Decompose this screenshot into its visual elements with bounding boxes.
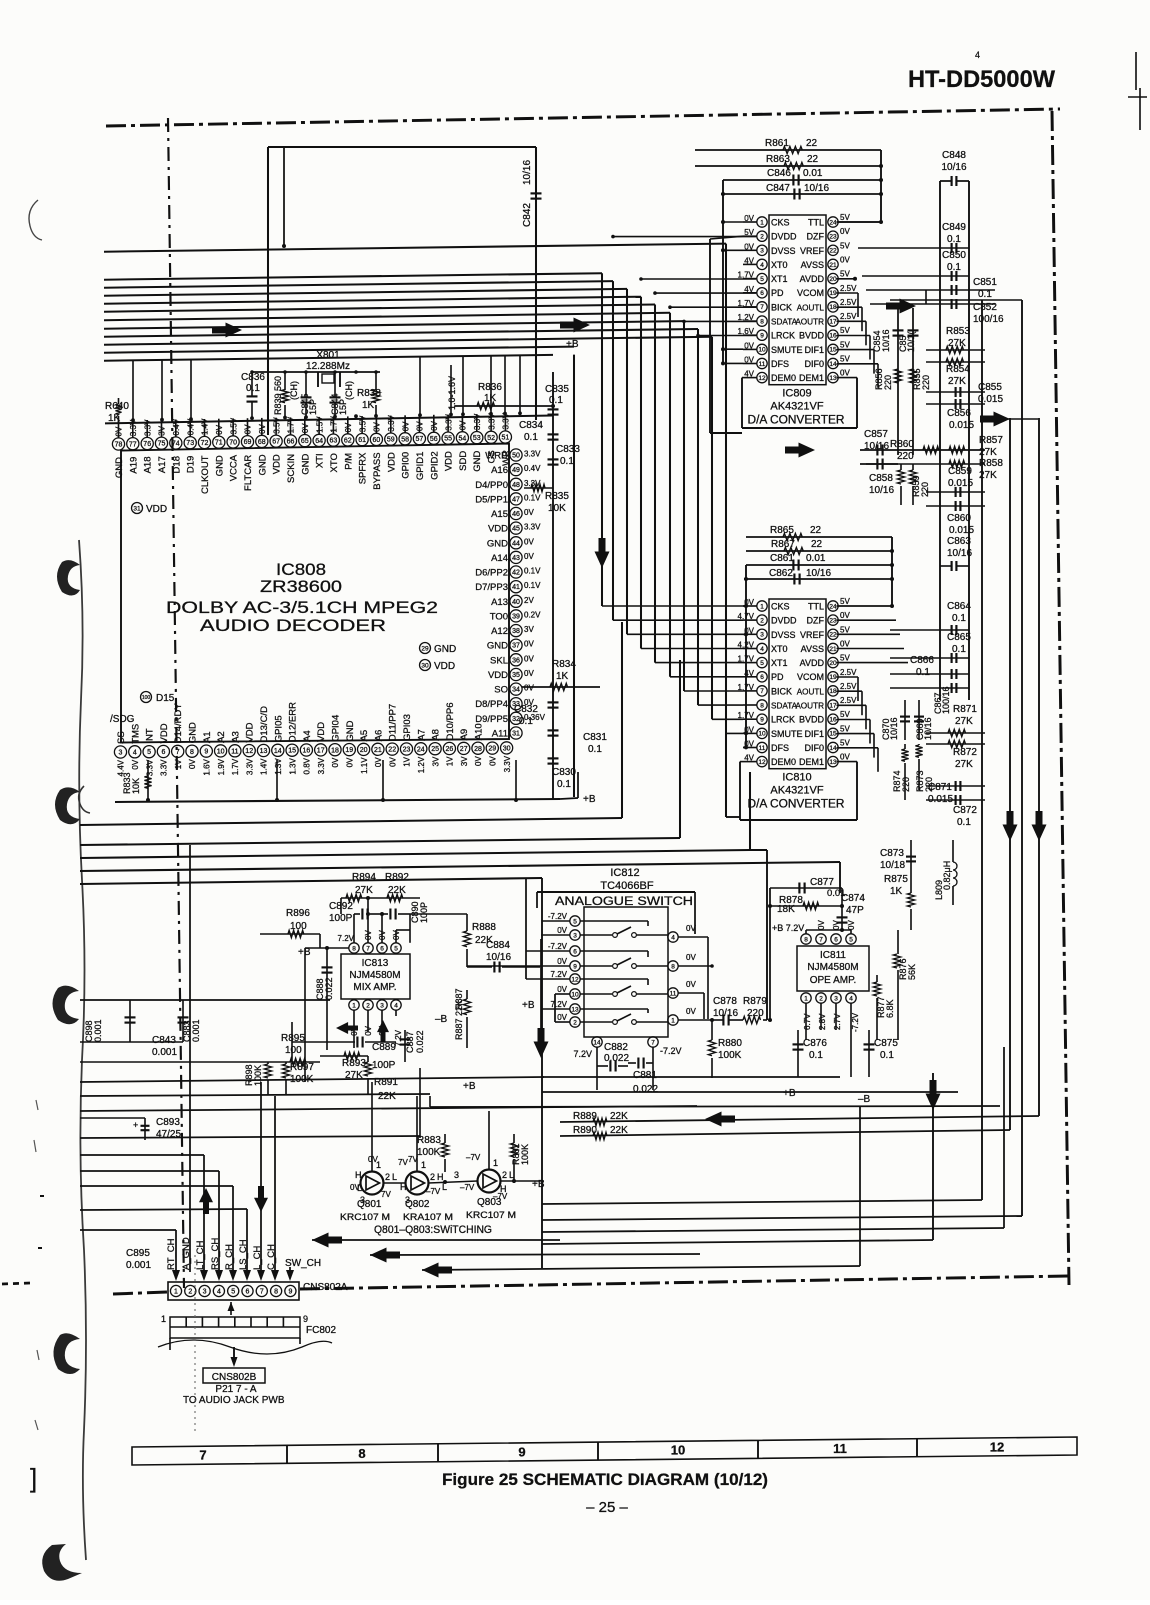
svg-text:0V: 0V	[557, 957, 567, 966]
svg-text:CKS: CKS	[771, 218, 790, 228]
IC810 pin 23 DZF	[828, 615, 838, 625]
IC812 left pin 13	[570, 1004, 580, 1014]
svg-text:A15: A15	[491, 509, 508, 520]
wire long left vertical IC812 outer	[541, 878, 543, 1268]
svg-text:0.1: 0.1	[557, 779, 571, 790]
CNS802A pin 7	[256, 1285, 267, 1296]
wire IC813 top pins	[340, 898, 342, 914]
svg-text:15: 15	[829, 347, 837, 354]
svg-text:70: 70	[229, 440, 237, 447]
wire bottom bundle	[542, 1200, 982, 1204]
svg-text:0V: 0V	[524, 654, 534, 663]
svg-text:6: 6	[246, 1289, 250, 1296]
svg-text:BVDD: BVDD	[799, 331, 825, 341]
svg-text:R895: R895	[281, 1033, 305, 1044]
IC809 pin 10 SMUTE	[757, 344, 767, 354]
svg-text:VDD: VDD	[434, 661, 455, 672]
svg-text:17: 17	[829, 702, 837, 709]
svg-text:14: 14	[593, 1039, 601, 1046]
svg-text:72: 72	[201, 440, 209, 447]
svg-text:5V: 5V	[840, 739, 850, 748]
IC812 right pin 1	[668, 1015, 678, 1025]
wire stub to IC810 pin	[602, 605, 743, 607]
svg-text:12: 12	[758, 759, 766, 766]
svg-text:0V: 0V	[840, 611, 850, 620]
svg-text:C847: C847	[766, 183, 790, 194]
svg-text:C895: C895	[126, 1248, 150, 1259]
svg-text:A9: A9	[459, 729, 470, 741]
wire vertical bundle 3	[626, 289, 628, 634]
capacitor C847 10/16	[721, 193, 881, 195]
svg-text:27K: 27K	[355, 885, 373, 896]
junction dot on rail	[418, 413, 422, 417]
svg-text:40: 40	[512, 599, 520, 606]
wire stub to IC810 pin	[684, 690, 743, 692]
IC810 pin 21 AVSS	[828, 643, 838, 653]
IC810 pin 20 AVDD	[828, 657, 838, 667]
svg-text:0.022: 0.022	[604, 1053, 629, 1064]
svg-text:74: 74	[172, 441, 180, 448]
svg-text:2V: 2V	[524, 596, 534, 605]
svg-text:VDD: VDD	[245, 722, 256, 742]
svg-text:24: 24	[829, 603, 837, 610]
transistor Q803 KRC107 M	[478, 1170, 501, 1193]
svg-text:10/16: 10/16	[889, 717, 899, 740]
IC809 pin 6 PD	[757, 288, 767, 298]
svg-text:2: 2	[819, 995, 823, 1002]
svg-text:0V: 0V	[557, 985, 567, 994]
CNS802A pin 4	[213, 1285, 224, 1296]
svg-text:0.1: 0.1	[947, 234, 961, 245]
svg-text:69: 69	[244, 439, 252, 446]
svg-text:6.8K: 6.8K	[885, 999, 895, 1018]
svg-text:DOLBY AC-3/5.1CH MPEG2: DOLBY AC-3/5.1CH MPEG2	[166, 598, 438, 617]
wire drop to IC808 rail	[419, 357, 421, 416]
arrow below IC809	[785, 443, 815, 458]
svg-text:76: 76	[143, 441, 151, 448]
svg-text:5V: 5V	[840, 597, 850, 606]
IC812 right pin 11	[668, 988, 678, 998]
svg-text:10/16: 10/16	[941, 162, 966, 173]
scan artifact curve top left	[29, 200, 42, 240]
svg-text:–B: –B	[858, 1094, 871, 1105]
IC810 pin 18 AOUTL	[828, 686, 838, 696]
svg-text:10/16: 10/16	[923, 717, 933, 740]
svg-text:10/16: 10/16	[947, 548, 972, 559]
svg-text:2: 2	[760, 234, 764, 241]
IC808 top pin 51 WR	[499, 431, 511, 443]
svg-text:4: 4	[133, 749, 137, 756]
svg-text:18: 18	[829, 688, 837, 695]
svg-text:XT0: XT0	[771, 644, 788, 654]
svg-text:5V: 5V	[840, 270, 850, 279]
IC808 top pin 67 VDD	[270, 435, 282, 447]
svg-text:D9/PP5: D9/PP5	[475, 714, 508, 725]
svg-text:AVSS: AVSS	[801, 644, 824, 654]
junction dot on rail	[304, 415, 308, 419]
IC810 pin 13 DEM1	[828, 756, 838, 766]
IC808 top pin 52 CS	[485, 431, 497, 443]
svg-text:C860: C860	[947, 513, 971, 524]
svg-text:1.7V: 1.7V	[231, 758, 240, 775]
svg-text:26: 26	[446, 746, 454, 753]
svg-text:D6/PP2: D6/PP2	[475, 568, 508, 579]
svg-text:R887 22K: R887 22K	[454, 1000, 464, 1040]
wire rail above IC808 top pins	[105, 416, 553, 424]
wire drop to +B rail	[382, 760, 384, 801]
svg-text:+B: +B	[583, 794, 596, 805]
IC811 top pin 6	[831, 934, 841, 944]
svg-text:35: 35	[512, 672, 520, 679]
IC808 right pin 36 SKL	[510, 654, 522, 666]
capacitor C889 100P	[292, 1041, 355, 1043]
svg-text:+B: +B	[566, 339, 579, 350]
IC808 right pin 47 D5/PP1	[510, 493, 522, 505]
svg-text:A17: A17	[157, 456, 168, 473]
svg-text:KRC107 M: KRC107 M	[340, 1212, 390, 1223]
svg-text:0V: 0V	[686, 953, 696, 962]
IC810 pin 15 DIF1	[828, 728, 838, 738]
svg-text:R896: R896	[286, 908, 310, 919]
svg-text:D/A CONVERTER: D/A CONVERTER	[748, 415, 845, 427]
wire C_CH vertical	[274, 1096, 276, 1272]
wire long horizontal	[80, 1106, 697, 1111]
wire stub to IC810 pin	[627, 633, 743, 635]
IC810 pin 3 DVSS	[757, 629, 767, 639]
svg-text:D8/PP4: D8/PP4	[475, 699, 508, 710]
resistor R863 22	[695, 165, 881, 167]
svg-text:0V: 0V	[557, 926, 567, 935]
IC808 right pin 40 A13	[510, 595, 522, 607]
wire IC809 right pin out	[837, 335, 871, 337]
arrow down channel	[254, 1186, 268, 1212]
fold dotted line	[194, 1255, 196, 1435]
wire misc verticals bottom	[429, 1096, 431, 1107]
svg-text:AVDD: AVDD	[800, 274, 825, 284]
wire vertical bundle 5	[654, 305, 656, 663]
svg-text:220: 220	[901, 777, 911, 792]
IC808 bottom pin 23 GPI03	[400, 743, 412, 755]
svg-text:C857: C857	[864, 429, 888, 440]
svg-text:1: 1	[352, 1002, 356, 1009]
IC808 top pin 53 GND	[471, 432, 483, 444]
svg-text:5V: 5V	[840, 724, 850, 733]
junction dot on rail	[461, 412, 465, 416]
IC810 pin 5 XT1	[757, 657, 767, 667]
IC808 top pin 57 GPID1	[413, 433, 425, 445]
svg-text:22: 22	[811, 539, 823, 550]
svg-text:IC813: IC813	[362, 958, 389, 969]
svg-text:0V: 0V	[840, 640, 850, 649]
connector CNS802A	[168, 1282, 299, 1300]
svg-text:R893: R893	[342, 1058, 366, 1069]
svg-text:XT1: XT1	[771, 658, 788, 668]
arrows left bottom	[312, 1233, 342, 1248]
wire junction top	[282, 244, 286, 248]
svg-text:A19: A19	[128, 457, 139, 474]
svg-text:CNS802B: CNS802B	[212, 1372, 257, 1383]
svg-text:SDATA: SDATA	[771, 702, 798, 711]
arrow right of IC809	[886, 299, 916, 314]
svg-text:0.001: 0.001	[126, 1260, 151, 1271]
svg-text:54: 54	[459, 435, 467, 442]
wire crystal rail	[252, 371, 380, 373]
svg-text:RS_CH: RS_CH	[210, 1238, 221, 1270]
svg-text:A13: A13	[491, 597, 508, 608]
IC811 bottom pin 1	[801, 993, 811, 1003]
svg-text:FLTCAR: FLTCAR	[243, 455, 254, 491]
svg-text:GPI00: GPI00	[401, 452, 412, 479]
svg-text:AOUTL: AOUTL	[797, 303, 825, 312]
IC812 switch 1	[581, 934, 613, 936]
svg-text:NJM4580M: NJM4580M	[349, 970, 400, 981]
svg-text:1: 1	[760, 603, 764, 610]
IC809 pin 13 DEM1	[828, 372, 838, 382]
svg-text:C830: C830	[552, 767, 576, 778]
svg-text:0.1: 0.1	[549, 395, 563, 406]
svg-text:C878: C878	[713, 996, 737, 1007]
svg-text:10: 10	[758, 347, 766, 354]
border bottom	[300, 1276, 1068, 1289]
wire stub to IC810 pin	[655, 662, 743, 664]
svg-text:GPID1: GPID1	[415, 452, 426, 481]
svg-text:10/16: 10/16	[713, 1008, 738, 1019]
svg-text:DEM0: DEM0	[771, 373, 796, 383]
svg-text:56K: 56K	[907, 964, 917, 980]
IC812 bottom pin 7	[648, 1037, 658, 1047]
svg-text:TTL: TTL	[808, 602, 824, 612]
IC809 pin 8 SDATA	[757, 316, 767, 326]
svg-text:SKL: SKL	[490, 655, 508, 666]
svg-text:10: 10	[671, 1443, 685, 1458]
IC809 pin 2 DVDD	[757, 231, 767, 241]
svg-text:GND: GND	[487, 641, 508, 652]
svg-text:D13/C/D: D13/C/D	[259, 706, 270, 743]
svg-text:TO0: TO0	[490, 611, 508, 622]
svg-text:D15: D15	[156, 693, 175, 704]
svg-text:22: 22	[829, 632, 837, 639]
svg-text:11: 11	[833, 1441, 847, 1456]
svg-text:0.01: 0.01	[806, 553, 826, 564]
svg-text:A10: A10	[474, 723, 485, 740]
wire right tall verticals	[981, 300, 983, 1200]
svg-text:9: 9	[573, 963, 577, 970]
IC813 bottom pin 2	[363, 1000, 373, 1010]
svg-text:12: 12	[758, 375, 766, 382]
svg-text:61: 61	[358, 437, 366, 444]
IC808 right pin 42 D6/PP2	[510, 566, 522, 578]
svg-text:NJM4580M: NJM4580M	[807, 962, 858, 973]
svg-text:2: 2	[573, 1019, 577, 1026]
svg-text:5V: 5V	[840, 241, 850, 250]
svg-text:59: 59	[387, 437, 395, 444]
svg-text:220: 220	[920, 482, 930, 497]
svg-text:0V: 0V	[215, 424, 224, 434]
svg-text:16: 16	[829, 717, 837, 724]
IC808 pin 30 VDD marker	[420, 660, 431, 671]
wire vertical bundle 6	[669, 313, 671, 677]
svg-text:10/16: 10/16	[869, 485, 894, 496]
svg-text:7.2V: 7.2V	[573, 1049, 592, 1059]
svg-text:A18: A18	[143, 457, 154, 474]
svg-text:22: 22	[806, 138, 818, 149]
svg-text:C833: C833	[556, 444, 580, 455]
svg-text:VREF: VREF	[800, 630, 825, 640]
IC808 top pin 75 A17	[155, 437, 167, 449]
svg-text:28: 28	[474, 746, 482, 753]
svg-text:+B: +B	[522, 1000, 535, 1011]
svg-text:C887: C887	[405, 1031, 415, 1053]
svg-text:1.6V: 1.6V	[203, 758, 212, 775]
op-amp IC810 D/A converter	[769, 599, 826, 769]
svg-text:IC810: IC810	[782, 772, 811, 784]
svg-text:0.1: 0.1	[246, 383, 260, 394]
IC block IC808 outline	[121, 444, 509, 743]
svg-text:C831: C831	[583, 732, 607, 743]
bus wire top	[104, 244, 726, 252]
IC808 right pin 32 D9/PP5	[510, 712, 522, 724]
svg-text:AUDIO DECODER: AUDIO DECODER	[200, 616, 386, 635]
wire IC809 right pin out	[837, 320, 867, 322]
svg-text:7: 7	[651, 1039, 655, 1046]
IC809 pin 24 TTL	[828, 217, 838, 227]
svg-text:37: 37	[512, 643, 520, 650]
svg-text:100: 100	[142, 695, 151, 701]
arrow down to CNS802B	[233, 1347, 235, 1362]
svg-text:1: 1	[174, 1289, 178, 1296]
svg-text:/SDG: /SDG	[110, 714, 135, 725]
svg-text:DIF0: DIF0	[804, 359, 824, 369]
svg-text:100: 100	[285, 1045, 302, 1056]
IC809 pin 20 AVDD	[828, 273, 838, 283]
svg-text:0V: 0V	[115, 426, 124, 436]
svg-text:C893: C893	[156, 1117, 180, 1128]
wire drop to +B rail	[276, 760, 278, 801]
svg-text:6.7V: 6.7V	[803, 1013, 812, 1030]
svg-text:58: 58	[401, 436, 409, 443]
IC808 right pin 49 A16	[510, 464, 522, 476]
svg-text:17: 17	[317, 747, 325, 754]
svg-text:SMUTE: SMUTE	[771, 729, 803, 739]
wire long horizontal	[80, 1077, 544, 1082]
IC809 pin 4 XT0	[757, 259, 767, 269]
IC808 bottom pin 28 A10	[472, 742, 484, 754]
wire bottom bus group with corners to IC812	[80, 818, 622, 825]
svg-text:D7/PP3: D7/PP3	[475, 582, 508, 593]
arrow left mid	[705, 1112, 735, 1127]
svg-text:CNS802A: CNS802A	[303, 1282, 348, 1293]
svg-text:3V: 3V	[158, 425, 167, 435]
svg-text:220: 220	[883, 375, 893, 390]
svg-text:DFS: DFS	[771, 359, 789, 369]
IC811 top pin 7	[816, 934, 826, 944]
wire stub to IC809 pin	[684, 320, 756, 322]
svg-text:VDD: VDD	[159, 723, 170, 743]
IC811 bottom pin 4	[846, 993, 856, 1003]
svg-text:13: 13	[829, 375, 837, 382]
junction dot on rail	[250, 416, 254, 420]
svg-text:C835: C835	[545, 384, 569, 395]
svg-text:21: 21	[374, 747, 382, 754]
svg-text:C865: C865	[947, 632, 971, 643]
wire vertical with down arrow	[932, 1073, 934, 1240]
svg-text:0.1: 0.1	[880, 1050, 894, 1061]
IC808 top pin 71 GND	[213, 436, 225, 448]
svg-text:1V: 1V	[174, 759, 183, 769]
IC810 pin 1 CKS	[757, 601, 767, 611]
svg-text:0V: 0V	[459, 420, 468, 430]
IC812 left pin 2	[570, 1017, 580, 1027]
svg-text:27K: 27K	[948, 376, 966, 387]
svg-text:XTO: XTO	[329, 453, 340, 472]
svg-text:A11: A11	[492, 729, 508, 740]
svg-text:73: 73	[186, 440, 194, 447]
capacitor C862 10/16	[744, 578, 892, 580]
svg-text:14: 14	[274, 748, 282, 755]
svg-text:BYPASS: BYPASS	[372, 452, 383, 489]
IC808 top pin 59 VDD	[385, 433, 397, 445]
IC809 pin 23 DZF	[828, 231, 838, 241]
wire rail right of ladder	[880, 150, 882, 222]
wire vertical bundle 9	[711, 337, 713, 720]
IC812 left pin 6	[570, 946, 580, 956]
svg-text:5: 5	[760, 276, 764, 283]
svg-text:16: 16	[829, 333, 837, 340]
wire drop to IC808 rail	[462, 356, 464, 414]
svg-text:3.5V: 3.5V	[272, 417, 281, 434]
IC808 top pin 60 BYPASS	[370, 433, 382, 445]
svg-text:D12/ERR: D12/ERR	[288, 702, 299, 742]
IC809 pin 9 LRCK	[757, 330, 767, 340]
svg-text:AK4321VF: AK4321VF	[770, 785, 823, 797]
svg-text:8: 8	[804, 936, 808, 943]
svg-text:47P: 47P	[846, 905, 864, 916]
svg-text:8: 8	[352, 945, 356, 952]
svg-text:D11/PP7: D11/PP7	[388, 704, 399, 741]
bus wire 8	[104, 329, 698, 337]
svg-text:67: 67	[272, 439, 280, 446]
svg-text:X801: X801	[316, 350, 340, 361]
svg-text:0V: 0V	[524, 537, 534, 546]
svg-text:GND: GND	[114, 457, 125, 478]
svg-text:TC4066BF: TC4066BF	[600, 880, 653, 892]
arrow on bus left	[212, 323, 242, 338]
IC808 bottom pin 21 A6	[372, 743, 384, 755]
svg-text:R839 560: R839 560	[273, 376, 283, 415]
svg-text:11: 11	[231, 748, 238, 755]
svg-text:XT0: XT0	[771, 260, 788, 270]
svg-text:AOUTR: AOUTR	[795, 702, 824, 711]
IC812 right pin 8	[668, 961, 678, 971]
svg-text:RT_CH: RT_CH	[166, 1238, 177, 1270]
svg-text:GPI04: GPI04	[331, 715, 342, 742]
IC808 bottom pin 7 D14/RDY	[172, 745, 184, 757]
IC808 top pin 77 A19	[127, 438, 139, 450]
CNS802A pin 6	[242, 1285, 253, 1296]
svg-text:21: 21	[829, 262, 837, 269]
IC808 bottom pin 10 A2	[215, 745, 227, 757]
svg-text:TMS: TMS	[130, 724, 141, 744]
svg-text:24: 24	[829, 219, 837, 226]
svg-text:0V: 0V	[301, 423, 310, 433]
svg-text:(CH): (CH)	[289, 381, 299, 400]
svg-text:VREF: VREF	[800, 246, 825, 256]
IC808 right pin 39 TO0	[510, 610, 522, 622]
wire vertical bundle 8	[697, 329, 699, 705]
junction dot on rail	[518, 411, 522, 415]
svg-text:68: 68	[258, 439, 266, 446]
svg-text:50: 50	[512, 453, 520, 460]
